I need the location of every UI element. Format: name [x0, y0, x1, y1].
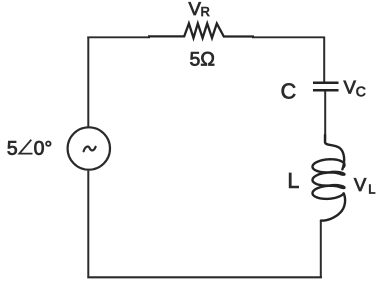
wire bottom horizontal [87, 276, 322, 278]
label VR (resistor voltage) [189, 2, 210, 16]
AC source V1 [68, 127, 110, 169]
label VC (capacitor voltage) [344, 81, 366, 97]
wire capacitor to inductor [324, 92, 326, 142]
wire top-right segment [252, 36, 325, 38]
label 5&#8736;0&#176; (source value) [8, 140, 52, 155]
capacitor C [313, 83, 339, 91]
wire right vertical upper segment [323, 37, 325, 83]
label L (inductor designator) [289, 173, 298, 188]
inductor L coil [313, 135, 346, 221]
label C (capacitor designator) [282, 83, 296, 98]
wire left vertical upper segment [87, 37, 89, 128]
wire inductor to bottom [320, 221, 322, 278]
label VL (inductor voltage) [354, 178, 375, 193]
label 5 ohm (resistor value) [190, 52, 214, 66]
wire left vertical lower segment [87, 171, 89, 278]
wire top horizontal [87, 36, 150, 38]
resistor R (5 ohm) [148, 24, 254, 39]
